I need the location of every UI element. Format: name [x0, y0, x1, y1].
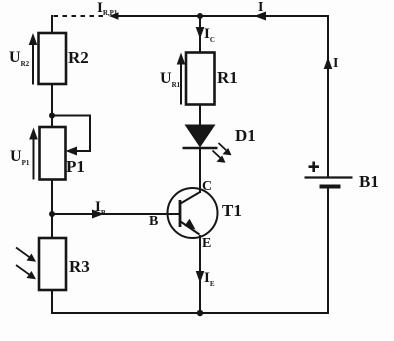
arrow I on top wire [254, 12, 266, 21]
wire left: top corner to R2 [51, 15, 53, 33]
arrow I_E on emitter wire [196, 271, 205, 283]
svg-text:R2: R2 [68, 48, 89, 67]
wire LED to transistor collector [199, 148, 201, 193]
wire R2 to P1 [51, 84, 53, 127]
label + [309, 162, 320, 173]
LED D1 [183, 125, 218, 149]
arrow I_B on base wire [92, 210, 104, 219]
svg-text:E: E [202, 236, 211, 251]
svg-text:B: B [149, 214, 158, 229]
arrow I on right wire [324, 57, 333, 69]
resistor R1 [186, 53, 215, 105]
svg-text:T1: T1 [222, 201, 242, 220]
node junction base [49, 211, 55, 217]
svg-text:D1: D1 [235, 126, 256, 145]
svg-text:B1: B1 [359, 172, 379, 191]
wire top horizontal [118, 15, 328, 17]
node junction emitter bottom [197, 310, 203, 316]
voltage arrow U_P1 [29, 128, 38, 180]
voltage arrow U_R1 [177, 53, 186, 105]
LED light arrow 2 [213, 151, 226, 163]
resistor R2 [39, 33, 67, 84]
svg-text:R3: R3 [69, 257, 90, 276]
light arrow 2 into R3 [16, 265, 36, 279]
svg-text:P1: P1 [66, 157, 85, 176]
wire right upper (to battery +) [327, 15, 329, 177]
svg-text:R1: R1 [217, 68, 238, 87]
transistor T1 [168, 188, 218, 238]
light arrow 1 into R3 [16, 248, 36, 262]
battery B1 [305, 178, 353, 187]
svg-text:C: C [202, 179, 212, 194]
LED light arrow 1 [219, 143, 232, 155]
node junction P1 wiper [49, 113, 55, 119]
wire base (node to transistor) [52, 213, 180, 215]
wire emitter to bottom [199, 235, 201, 313]
photoresistor R3 [39, 238, 66, 290]
arrow I_C on collector branch [196, 27, 205, 39]
wire P1 to R3 [51, 179, 53, 238]
node junction top (collector branch) [197, 13, 203, 19]
svg-text:I: I [333, 56, 338, 71]
potentiometer P1 [40, 116, 91, 180]
svg-text:I: I [258, 0, 263, 15]
wire right lower (from battery -) [327, 187, 329, 314]
wire R3 to bottom [51, 290, 53, 314]
arrow I R,P1 on top wire [109, 12, 119, 20]
wire top dashed segment [54, 15, 106, 17]
wire R1 to LED [199, 104, 201, 125]
wire bottom [51, 312, 329, 314]
voltage arrow U_R2 [29, 33, 38, 85]
wire collector branch top [199, 16, 201, 52]
